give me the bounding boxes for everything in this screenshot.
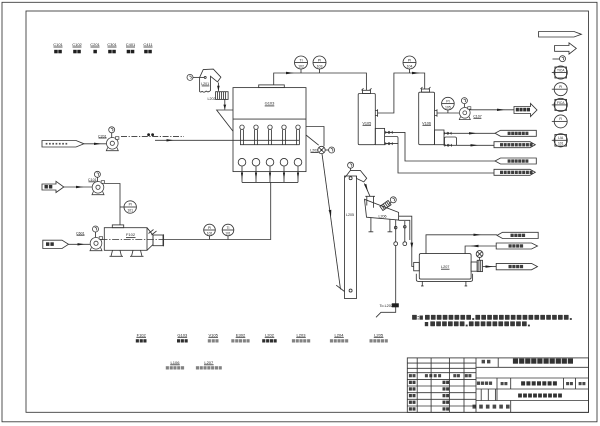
svg-text:F102: F102 — [137, 332, 147, 337]
svg-text:FI: FI — [559, 117, 562, 121]
wire to pump C101 — [64, 186, 92, 188]
bucket elevator L205 — [336, 162, 370, 298]
title block table — [407, 358, 588, 413]
wire feeder to chute — [224, 99, 226, 109]
node air inlet arrow — [42, 181, 92, 192]
wire furnace outlet — [164, 182, 271, 239]
legend instrument LIA-101 — [552, 134, 568, 147]
instrument on C107 — [461, 98, 467, 104]
spray nozzles row — [240, 125, 300, 145]
rotary cooler L207 — [414, 251, 483, 286]
tag C201 — [90, 42, 100, 53]
L207 inlet nozzle — [414, 262, 420, 270]
notes text line 1 — [412, 315, 572, 320]
legend instrument FICA — [552, 98, 568, 111]
legend block arrow symbol — [555, 43, 577, 54]
instrument PI-101 — [120, 201, 136, 213]
svg-text:PI: PI — [446, 99, 449, 103]
tag C102 — [72, 42, 82, 53]
wire C107 to gas outlet — [470, 109, 515, 111]
discharge legs with rotary seals — [395, 220, 397, 242]
node gas inlet flag — [43, 240, 91, 248]
svg-text:FICA: FICA — [557, 101, 565, 105]
svg-text:L202: L202 — [265, 332, 275, 337]
instrument on C101 — [94, 171, 100, 177]
wire L206 discharge to drum — [399, 216, 414, 266]
svg-text:TI: TI — [299, 58, 302, 62]
svg-text:G103: G103 — [177, 332, 188, 337]
wire C101 discharge to furnace — [105, 184, 121, 226]
instrument on L206 — [390, 197, 396, 203]
svg-text:TI: TI — [227, 226, 230, 230]
wire L207 exhaust to flag — [426, 235, 497, 254]
node lime-milk inlet flag — [42, 141, 106, 148]
wire slurry dash-dot — [121, 133, 300, 141]
L206 legs — [369, 218, 374, 232]
svg-text:V106: V106 — [422, 121, 431, 125]
svg-text:C301: C301 — [107, 42, 117, 47]
node flag cooling water — [496, 243, 537, 249]
svg-text:L207: L207 — [441, 265, 449, 269]
svg-text:104: 104 — [407, 64, 413, 68]
node flag cooler exhaust — [497, 232, 538, 238]
pump C107 — [459, 98, 482, 120]
top fan tag row — [53, 42, 153, 53]
svg-text:101: 101 — [127, 209, 133, 213]
instrument TI-102 — [295, 56, 308, 73]
svg-text:C101: C101 — [53, 42, 63, 47]
svg-text:V105: V105 — [362, 121, 371, 125]
svg-text:F102: F102 — [126, 232, 136, 237]
svg-text:L202: L202 — [208, 97, 216, 101]
svg-text:105: 105 — [445, 105, 451, 109]
instrument on C601 — [93, 226, 99, 232]
instrument TI-101 — [222, 224, 234, 239]
hopper L201 — [187, 69, 221, 92]
svg-text:PI: PI — [559, 85, 562, 89]
tag C101 — [53, 42, 63, 53]
legend instrument FI — [552, 115, 567, 128]
vibrating feeder L206 — [365, 196, 407, 245]
instrument on star valve — [329, 147, 335, 153]
node flag 49% liquor — [494, 169, 535, 175]
svg-text:103: 103 — [317, 64, 323, 68]
svg-text:C201: C201 — [90, 42, 100, 47]
V105 outlet valves and wires — [385, 131, 495, 173]
rotary feeder L202a — [208, 92, 229, 110]
elevator inlet chute — [336, 285, 344, 291]
wire cooling water to L207 — [465, 246, 496, 254]
svg-text:101: 101 — [558, 142, 564, 146]
motor on L206 — [380, 201, 391, 211]
svg-text:G103: G103 — [265, 101, 276, 106]
equipment tag list bottom — [136, 332, 388, 369]
svg-text:E302: E302 — [236, 332, 246, 337]
legend flag symbol — [539, 32, 582, 38]
svg-text:To.L202: To.L202 — [380, 304, 394, 308]
svg-text:L203: L203 — [297, 332, 307, 337]
feed chute into tower — [217, 110, 233, 131]
node flag product — [496, 263, 537, 269]
svg-text:PI: PI — [408, 58, 411, 62]
svg-text:PI: PI — [318, 58, 321, 62]
furnace F102 — [101, 225, 165, 256]
L207 skirt — [416, 274, 472, 282]
star valve L202 — [310, 146, 334, 153]
svg-text:101: 101 — [225, 231, 231, 235]
wire tower top to absorber line — [274, 73, 367, 90]
wire V106 to pump C107 — [437, 112, 459, 114]
node flag 37% liquor — [495, 158, 536, 164]
instrument PI-104 — [403, 56, 416, 73]
svg-text:PI: PI — [129, 203, 132, 207]
svg-text:102: 102 — [298, 64, 304, 68]
wire product outlet — [483, 266, 497, 268]
wire V105 to V106 — [378, 73, 425, 113]
svg-text:L201: L201 — [201, 82, 209, 86]
furnace legs — [110, 250, 124, 256]
L207 legs — [421, 281, 424, 286]
instrument PI-102 — [204, 224, 216, 239]
V105 side nozzle — [375, 109, 377, 116]
legend instrument PI — [552, 83, 567, 96]
blower C601 — [76, 226, 103, 251]
svg-text:C411: C411 — [143, 42, 153, 47]
instrument on L201 — [187, 74, 193, 80]
node flag 50% liquor — [495, 130, 536, 136]
pump C201 — [98, 127, 119, 151]
V106 side nozzle — [435, 109, 438, 116]
wire recycle to L202 — [376, 246, 399, 318]
svg-text:PI: PI — [208, 226, 211, 230]
spray tower G103 — [217, 85, 306, 182]
tag C301 — [107, 42, 117, 53]
svg-text:L205: L205 — [374, 332, 384, 337]
wire chute star valve to elevator — [322, 154, 341, 290]
wire to pump C201 — [84, 143, 106, 145]
svg-text:102: 102 — [207, 231, 213, 235]
L207 outlet nozzle and valve — [471, 262, 477, 271]
V106 outlet valves and wires — [444, 132, 495, 147]
svg-text:C401: C401 — [126, 42, 136, 47]
svg-text:L207: L207 — [204, 360, 214, 365]
V105 sump — [375, 128, 384, 144]
node flag concentrate — [494, 142, 535, 148]
tag C411 — [143, 42, 153, 53]
instrument PI-103 — [313, 56, 326, 73]
instrument on L205 — [348, 162, 354, 168]
svg-text:L106: L106 — [171, 360, 181, 365]
legend instrument TICA — [552, 66, 568, 79]
svg-text:C102: C102 — [72, 42, 82, 47]
absorber V105 — [358, 88, 384, 144]
instrument on C201 — [109, 127, 115, 133]
wire hopper to feeder — [217, 83, 219, 92]
svg-text:V105: V105 — [209, 332, 219, 337]
tag C401 — [126, 42, 136, 53]
svg-text:LIA: LIA — [558, 136, 564, 140]
burner feed lines — [241, 166, 299, 182]
svg-text:L205: L205 — [346, 213, 354, 217]
legend sample point symbol — [553, 56, 566, 62]
node offgas outlet arrow — [514, 103, 537, 116]
wire to blower C601 — [69, 243, 91, 245]
wire tower outlet to star valve — [306, 127, 324, 147]
wire slurry header to tower — [155, 139, 300, 141]
pump C101 — [88, 171, 105, 194]
burner circles row — [238, 158, 302, 166]
instrument PI-105 — [442, 97, 455, 113]
wire head spout to L206 — [364, 183, 370, 196]
svg-text:L204: L204 — [335, 332, 345, 337]
instrument on L207 outlet — [476, 251, 483, 261]
svg-text:TICA: TICA — [557, 68, 565, 72]
notes text line 2 — [425, 321, 530, 326]
absorber V106 — [419, 87, 444, 145]
svg-text:L206: L206 — [379, 214, 387, 218]
V106 sump — [435, 130, 445, 145]
